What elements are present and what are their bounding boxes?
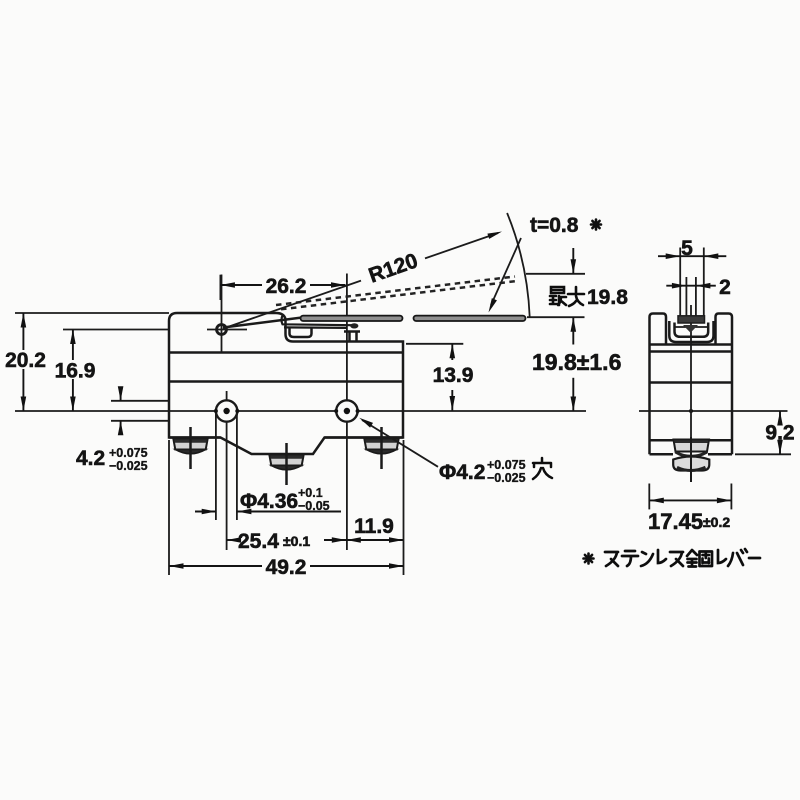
lever pivot [217,325,227,335]
svg-text:±0.1: ±0.1 [283,533,310,549]
dim 2 [666,285,716,287]
glyph n [641,552,653,566]
glyph 最 [551,287,564,293]
svg-text:49.2: 49.2 [266,556,307,579]
side plunger V detail [683,325,698,333]
note: stainless steel lever [584,554,594,564]
dim 4.2 arrows [120,388,122,401]
switch body front view outline [169,313,403,454]
dim 19.8 +-1.6 [572,317,574,344]
svg-text:±0.2: ±0.2 [703,514,730,530]
plunger stem [348,332,351,342]
svg-text:16.9: 16.9 [55,360,96,383]
body seam line 2 [169,380,403,383]
dia 4.2 hole leader [362,420,438,467]
terminal screw right [364,427,398,469]
side shoulder lines [650,343,733,346]
svg-text:+0.075: +0.075 [487,458,526,472]
dim 26.2 [219,275,221,300]
mounting hole center line [15,410,216,412]
svg-text:+0.1: +0.1 [298,486,323,500]
side seam [650,381,733,384]
side hole center line [639,410,788,412]
dim 9.2 [779,411,781,423]
svg-text:−0.025: −0.025 [487,471,526,485]
dim 17.45 extension lines [648,484,650,510]
dim 5 [658,255,680,257]
lever strip segment A [301,316,403,321]
lever strip segment B [414,316,526,321]
dashed lever max position bottom edge [281,281,517,309]
dim 25.4 [227,539,236,541]
t=0.8 leader [491,238,521,305]
side bottom edge [650,453,674,456]
dim 2 extension lines [685,277,687,316]
svg-text:19.8±1.6: 19.8±1.6 [532,349,621,375]
dim 16.9 extension line [63,329,169,331]
pivot vertical extension [221,275,223,353]
terminal screw left [173,427,207,469]
dim 4.2 hole extension lines [111,400,169,402]
svg-text:−0.025: −0.025 [109,459,148,473]
svg-text:+0.075: +0.075 [109,446,148,460]
glyph re2 [718,550,726,563]
dashed lever max position top edge [276,277,515,306]
glyph long dash [749,557,760,560]
svg-text:5: 5 [681,237,693,260]
svg-text:9.2: 9.2 [765,422,794,445]
lever catch tab [290,328,312,338]
glyph te [622,551,638,566]
side lever cross-section [678,316,705,323]
svg-text:11.9: 11.9 [354,515,394,538]
dim 20.2 [22,313,24,350]
svg-text:4.2: 4.2 [76,447,105,470]
hole edge extensions for dia 4.36 [215,413,217,520]
dim max 19.8 extension lines [526,273,585,275]
left mounting hole [216,400,237,421]
lever under-bar with curled end [282,316,353,328]
dim 11.9 [346,539,403,541]
svg-text:Φ4.36: Φ4.36 [240,490,298,513]
side center line [690,305,692,482]
svg-text:25.4: 25.4 [238,530,279,553]
dim 17.45 [649,499,731,501]
glyph su2 [670,552,683,566]
glyph su [605,552,618,566]
svg-text:13.9: 13.9 [433,364,474,387]
dim 16.9 [72,330,74,361]
body seam line 1 [169,351,403,354]
dim 9.2 bottom extension [735,453,791,455]
svg-text:2: 2 [719,276,731,299]
body bottom recess corrections [169,436,221,439]
dim max 19.8 [572,248,574,274]
glyph ba [728,549,747,566]
dim 5 extension lines [679,248,681,316]
side bottom screw head [673,457,709,471]
max 19.8 label: CJK 最大 drawn + 19.8 [550,287,584,306]
R120 leader line [223,281,361,329]
right mounting hole [336,400,357,421]
dia 4.36 dimension [195,511,216,513]
dim 13.9 extension line [406,343,463,345]
svg-text:19.8: 19.8 [587,286,628,309]
right body edge extension [403,440,405,575]
glyph kou (steel) [687,550,712,567]
glyph re [658,550,666,563]
svg-text:26.2: 26.2 [266,275,307,298]
svg-text:20.2: 20.2 [5,349,46,372]
glyph 大 [568,287,584,306]
glyph hole (ana) [533,458,552,479]
side body outline [650,314,733,455]
svg-text:Φ4.2: Φ4.2 [439,461,485,484]
right hole / plunger vertical extension [346,274,348,401]
dim 20.2 extension line [15,312,169,314]
side lower seam [650,439,733,442]
dim 49.2 [168,440,170,575]
lever taper edge from pivot [223,318,302,328]
terminal screw middle [269,443,303,485]
dim 13.9 [451,344,453,360]
svg-text:t=0.8: t=0.8 [530,214,579,237]
svg-text:−0.05: −0.05 [298,499,330,513]
svg-text:17.45: 17.45 [648,509,703,534]
side bottom screw washer [674,440,710,452]
side U strap [669,321,713,342]
lever sweep arc [507,213,530,317]
